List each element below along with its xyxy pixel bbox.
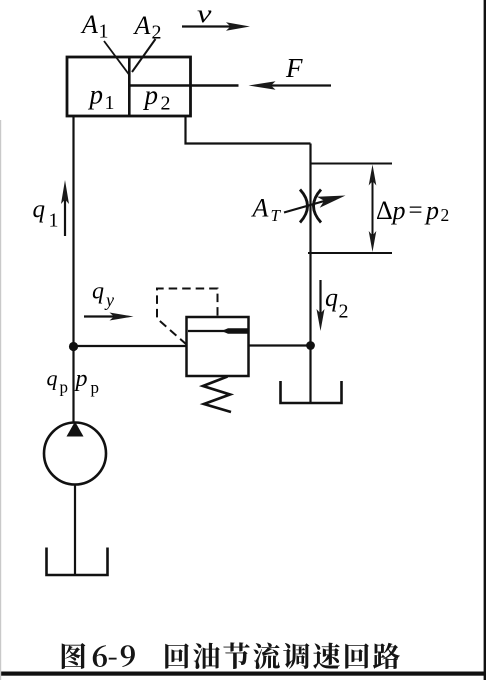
relief valve pilot line (dashed) bbox=[157, 289, 218, 345]
caption text bbox=[62, 642, 400, 669]
cylinder body bbox=[67, 57, 191, 116]
leader line A1 bbox=[104, 41, 129, 75]
svg-text:p: p bbox=[60, 378, 69, 397]
flow arrow q2 bbox=[319, 280, 321, 322]
relief valve internal flow line bbox=[188, 330, 232, 332]
svg-text:F: F bbox=[285, 53, 303, 83]
svg-text:1: 1 bbox=[99, 21, 109, 43]
tank right bbox=[281, 381, 342, 403]
border bottom edge bbox=[0, 672, 486, 676]
svg-text:=: = bbox=[409, 197, 423, 224]
border right edge bbox=[484, 0, 486, 680]
svg-text:p: p bbox=[424, 196, 439, 225]
svg-text:q: q bbox=[92, 279, 104, 305]
svg-text:q: q bbox=[325, 283, 338, 312]
border left edge (faint) bbox=[0, 120, 1, 680]
dp dimension arrow bbox=[372, 172, 374, 245]
wire relief valve outlet to tank line bbox=[249, 344, 311, 346]
throttle valve AT arcs bbox=[300, 190, 308, 223]
flow arrow qy bbox=[84, 315, 120, 317]
dp bottom reference line bbox=[308, 252, 392, 254]
tank under pump bbox=[47, 548, 108, 576]
svg-text:1: 1 bbox=[105, 92, 115, 114]
svg-text:A: A bbox=[133, 11, 151, 40]
force arrow F bbox=[265, 84, 331, 86]
flow arrow q1 bbox=[64, 192, 66, 236]
dp top reference line bbox=[311, 163, 393, 165]
svg-text:A: A bbox=[80, 10, 98, 39]
svg-text:y: y bbox=[104, 290, 114, 310]
svg-text:1: 1 bbox=[49, 210, 59, 232]
wire pump to tank bbox=[74, 485, 76, 576]
svg-text:p: p bbox=[143, 80, 159, 110]
svg-text:p: p bbox=[91, 378, 100, 397]
svg-text:v: v bbox=[197, 0, 212, 28]
svg-text:p: p bbox=[88, 80, 104, 110]
wire junction to relief valve inlet bbox=[74, 345, 187, 347]
svg-text:q: q bbox=[47, 366, 58, 391]
junction node left bbox=[69, 342, 78, 351]
svg-text:p: p bbox=[391, 196, 406, 225]
velocity arrow v bbox=[182, 25, 232, 27]
svg-text:Δ: Δ bbox=[376, 196, 393, 225]
leader line A2 bbox=[132, 39, 156, 72]
junction node right bbox=[306, 341, 315, 350]
svg-text:p: p bbox=[74, 366, 88, 392]
svg-text:2: 2 bbox=[441, 205, 450, 225]
cylinder piston bbox=[128, 57, 131, 116]
cylinder piston rod bbox=[129, 84, 238, 87]
wire right vertical to tank bbox=[309, 144, 311, 404]
relief valve body bbox=[187, 317, 249, 376]
relief valve spring bbox=[203, 377, 231, 413]
svg-text:q: q bbox=[33, 196, 46, 223]
wire cylinder p2 outlet bbox=[186, 116, 311, 144]
wire cylinder p1 to pump bbox=[72, 116, 74, 423]
svg-text:2: 2 bbox=[339, 301, 349, 323]
throttle adjust arrow bbox=[284, 201, 326, 213]
svg-text:2: 2 bbox=[152, 22, 162, 44]
svg-text:A: A bbox=[251, 194, 269, 223]
svg-text:T: T bbox=[271, 206, 282, 225]
pump triangle bbox=[67, 422, 84, 437]
svg-text:2: 2 bbox=[161, 93, 171, 115]
pump circle bbox=[44, 423, 106, 485]
